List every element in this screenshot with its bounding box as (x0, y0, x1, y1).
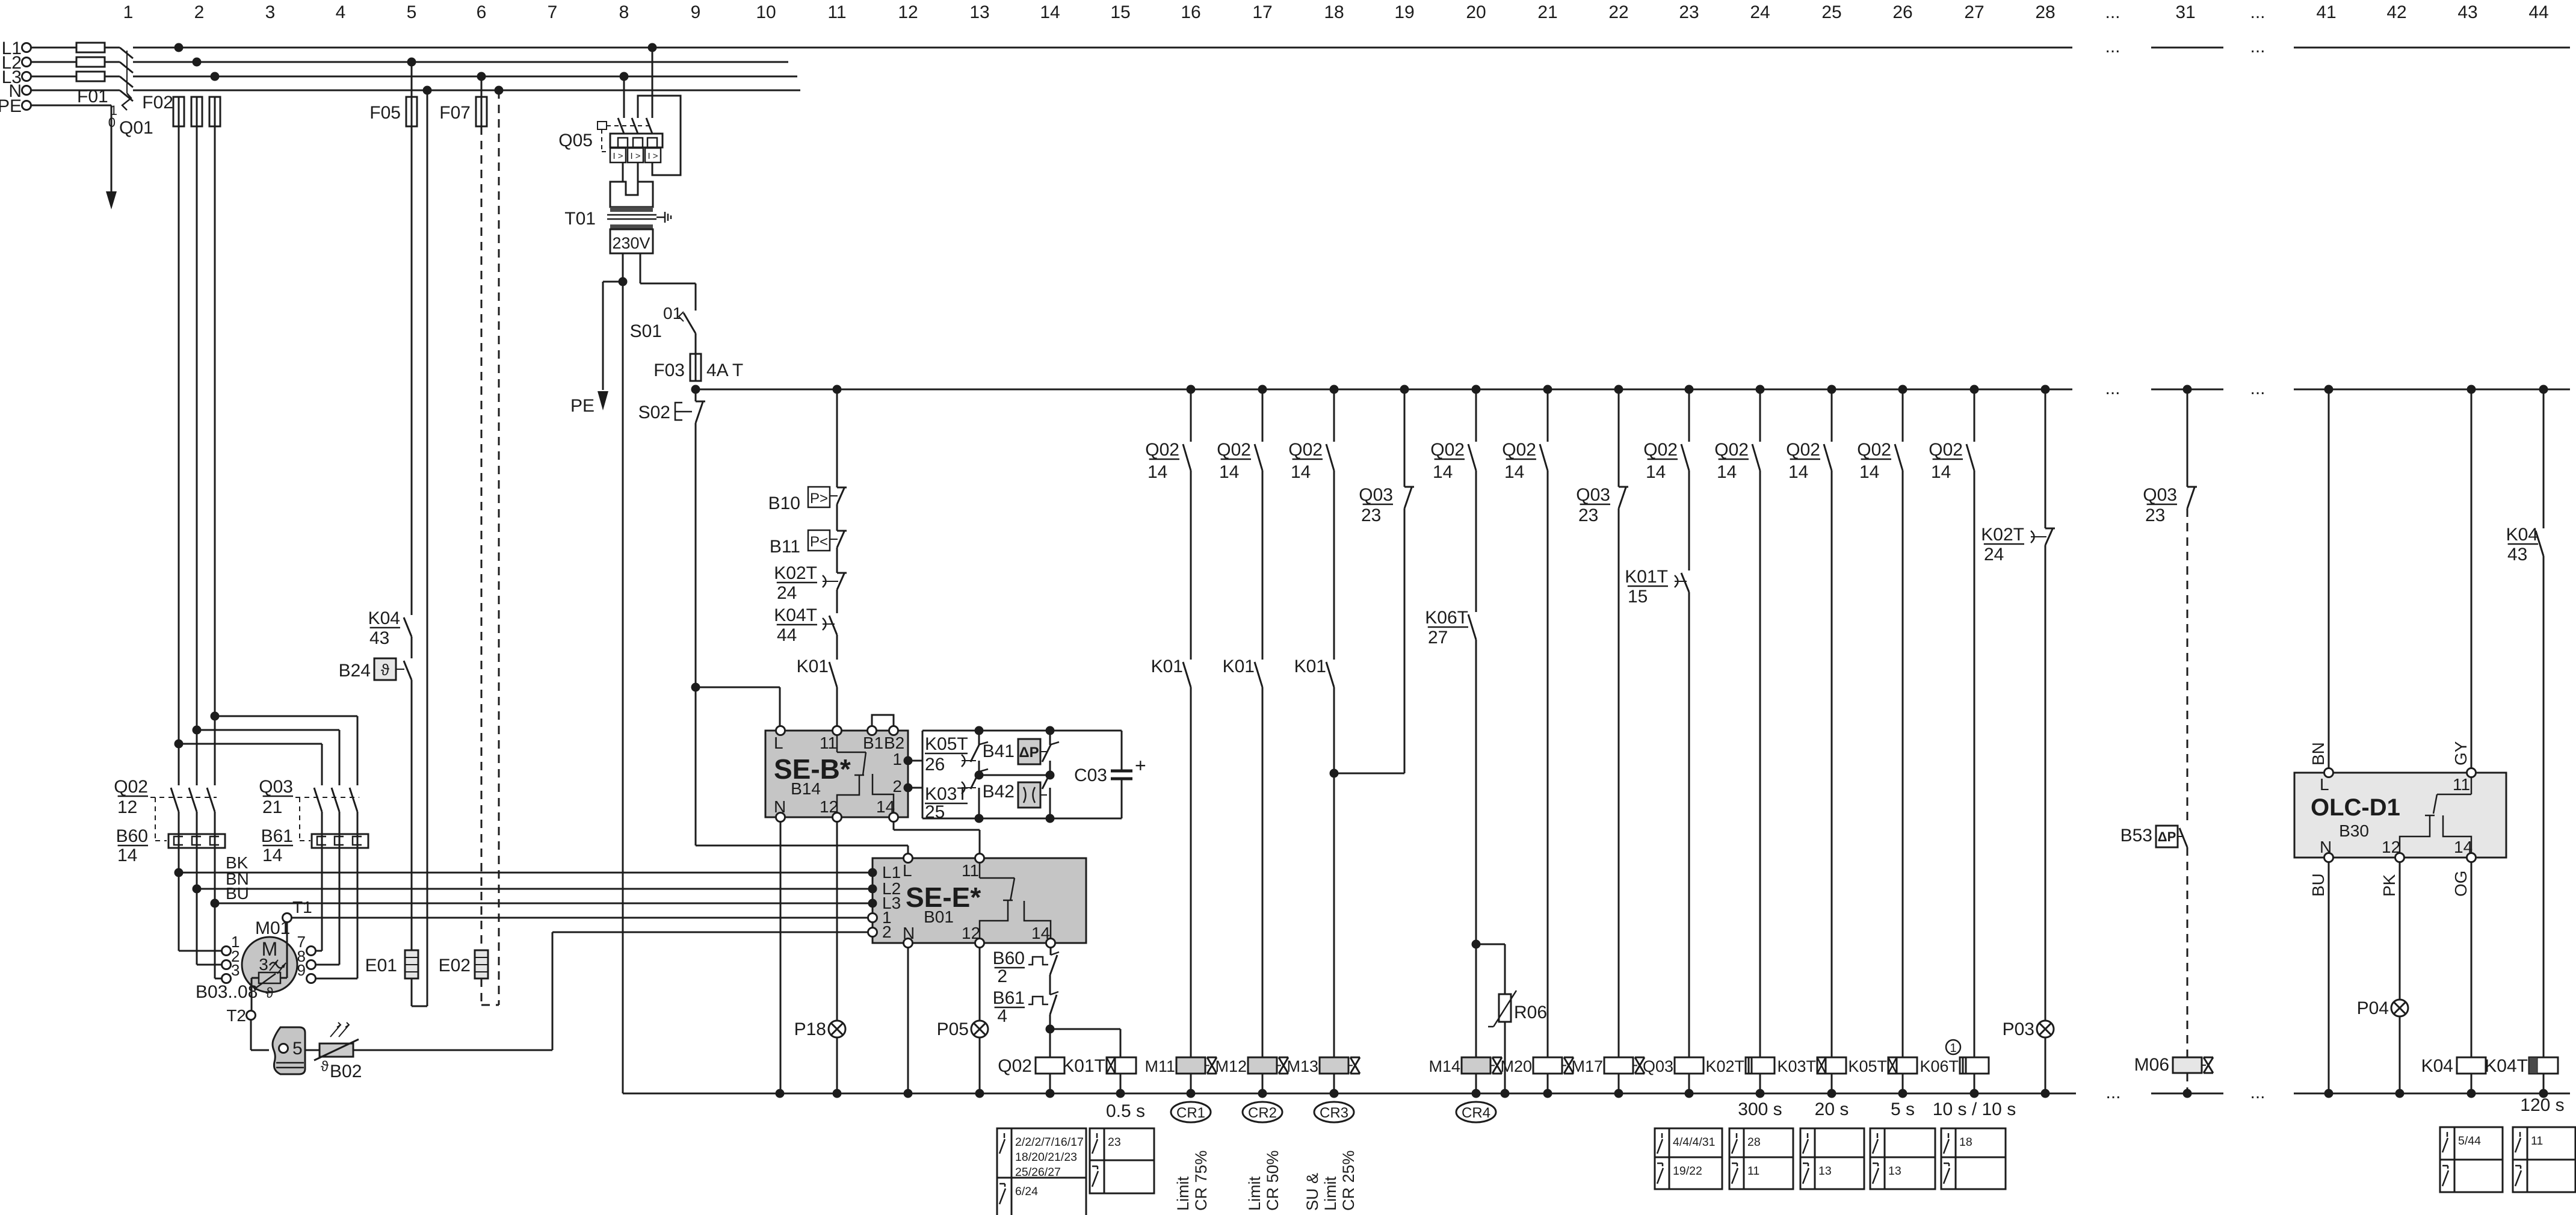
motor protection breaker Q05 (558, 48, 681, 182)
contact K01 (col11) (797, 635, 837, 726)
wire S02 down to SE-E L (696, 423, 908, 855)
svg-text:9: 9 (691, 2, 701, 22)
node SE-B pin1 (904, 756, 913, 765)
svg-text:17: 17 (1252, 2, 1272, 22)
contact Q02 14 (col24) (1714, 389, 1760, 482)
mid link line (979, 774, 1050, 776)
svg-text:Q02: Q02 (1145, 440, 1179, 460)
wire E01 return (427, 90, 428, 1006)
wire motor feeds right (315, 812, 357, 978)
junction dot F05 tap on L2 (407, 58, 416, 67)
svg-text:B10: B10 (768, 493, 800, 513)
svg-text:42: 42 (2386, 2, 2406, 22)
cross-ref table K04 (2440, 1127, 2503, 1192)
svg-text:ϑ: ϑ (265, 985, 273, 1001)
wire SE-B 14 to SE-E 11 (894, 821, 980, 854)
label 300 s (1738, 1099, 1782, 1119)
relay ellipse CR1 (1171, 1102, 1211, 1122)
motor terminal 3 (222, 961, 240, 983)
solenoid valve coil M17 (1571, 1057, 1645, 1093)
svg-text:Q02: Q02 (998, 1056, 1032, 1076)
cross-ref table K06T (1941, 1128, 2006, 1189)
svg-text:F01: F01 (77, 87, 108, 107)
pin SE-B 11 (833, 726, 842, 735)
timer coil K02T (1705, 1057, 1774, 1093)
svg-text:BU: BU (226, 884, 249, 903)
module SE-E* B01 (873, 858, 1086, 943)
svg-text:15: 15 (1110, 2, 1130, 22)
svg-text:Q02: Q02 (1288, 440, 1323, 460)
coil K04 (2421, 862, 2486, 1093)
svg-text:28: 28 (2035, 2, 2055, 22)
svg-text:K06T: K06T (1425, 608, 1468, 628)
pin SE-E L3 (868, 899, 877, 908)
svg-text:K04T: K04T (2485, 1056, 2528, 1076)
terminal N (8, 81, 31, 101)
svg-text:S02: S02 (638, 403, 670, 422)
svg-text:Q05: Q05 (558, 131, 593, 150)
lamp P04 (2357, 862, 2408, 1093)
timer coil K05T (1848, 1057, 1917, 1093)
svg-text:B61: B61 (261, 826, 293, 846)
svg-text:9: 9 (297, 961, 306, 979)
svg-text:K05T: K05T (1848, 1057, 1887, 1075)
junction dot col16 on control rail (1187, 385, 1196, 394)
wire transformer to S01 (640, 283, 696, 311)
svg-text:P05: P05 (937, 1019, 969, 1039)
pressure sensor B53 dP (2120, 826, 2187, 847)
svg-text:S01: S01 (630, 321, 662, 341)
wire col27 to coil (1974, 471, 1975, 1057)
pin SE-E 1 (868, 914, 877, 923)
cross-ref table K04T (2513, 1127, 2575, 1192)
contact Q02 14 (col17) (1217, 389, 1262, 482)
wire OLC N to bottom rail (2328, 862, 2330, 1093)
svg-text:11: 11 (820, 734, 837, 752)
svg-text:24: 24 (777, 583, 797, 603)
solenoid valve coil M12 (1215, 1057, 1288, 1093)
svg-text:L: L (903, 861, 912, 880)
fuse F07 (439, 97, 487, 126)
node SE-B pin2 (904, 784, 913, 793)
cross-ref table K03T (1800, 1128, 1864, 1189)
fuse F03 4A T (653, 354, 743, 381)
svg-text:...: ... (2250, 2, 2265, 22)
wire control rail (696, 389, 2570, 391)
rotated label BU (2309, 873, 2327, 897)
svg-text:2: 2 (892, 777, 902, 796)
wire col26 to coil (1902, 471, 1904, 1057)
coil K04T (2485, 556, 2558, 1093)
pin SE-E 11 (975, 854, 984, 863)
wire Q03 tap BN (193, 726, 340, 786)
svg-text:11: 11 (827, 2, 846, 22)
timer coil K03T (1777, 1057, 1846, 1093)
wire N rail (31, 90, 800, 91)
label 0.5 s (1106, 1101, 1145, 1121)
svg-text:11: 11 (2453, 775, 2470, 794)
svg-text:PK: PK (2380, 874, 2398, 897)
pin SE-B B1 (868, 726, 877, 735)
terminal L1 (2, 39, 31, 58)
solenoid valve coil M20 (1500, 1057, 1574, 1093)
main switch Q01 (108, 48, 153, 138)
svg-text:4: 4 (336, 2, 346, 22)
junction dot col26 on control rail (1898, 385, 1907, 394)
svg-text:K03T: K03T (925, 784, 968, 804)
svg-text:CR 25%: CR 25% (1339, 1150, 1357, 1211)
wire E02 return (dashed) (498, 90, 500, 1005)
junction dot col20 on control rail (1472, 385, 1481, 394)
svg-text:K03T: K03T (1777, 1057, 1816, 1075)
svg-text:F05: F05 (369, 103, 401, 123)
svg-text:41: 41 (2316, 2, 2336, 22)
solenoid valve coil M06 (2134, 1055, 2213, 1093)
svg-text:E02: E02 (439, 956, 471, 975)
svg-text:ϑ: ϑ (321, 1059, 329, 1075)
svg-text:5: 5 (292, 1039, 303, 1059)
svg-text:14: 14 (1717, 462, 1737, 482)
svg-text:B11: B11 (770, 537, 800, 557)
svg-text:18: 18 (1959, 1136, 1972, 1149)
contactor coil Q03 (1643, 1057, 1703, 1093)
coil K01T (1062, 1029, 1136, 1093)
svg-text:21: 21 (1537, 2, 1557, 22)
svg-text:T01: T01 (564, 209, 596, 229)
timed contact K06T 27 (1425, 471, 1476, 648)
svg-text:230V: 230V (612, 234, 650, 252)
pin SE-B N (776, 813, 785, 822)
pin SE-E L (904, 854, 913, 863)
pressure contact B61 4 (993, 975, 1058, 1029)
pin SE-E 2 (868, 928, 877, 937)
svg-text:B14: B14 (791, 779, 821, 798)
contact Q03 23 (col19) (1359, 389, 1414, 525)
wire Q03 tap BK (211, 712, 358, 786)
junction dot col21 on control rail (1543, 385, 1552, 394)
svg-text:0: 0 (108, 115, 116, 130)
motor terminal 7 (297, 933, 316, 956)
svg-text:Q02: Q02 (1786, 440, 1820, 460)
svg-text:3: 3 (259, 955, 268, 974)
svg-text:SU &: SU & (1303, 1173, 1321, 1211)
svg-text:K04T: K04T (774, 605, 817, 625)
pin OLC L (2324, 768, 2334, 778)
svg-text:M11: M11 (1144, 1057, 1175, 1075)
svg-text:18/20/21/23: 18/20/21/23 (1015, 1151, 1077, 1164)
svg-text:27: 27 (1964, 2, 1984, 22)
svg-text:20 s: 20 s (1815, 1099, 1849, 1119)
fuse F05 (369, 97, 417, 126)
svg-text:I >: I > (613, 151, 623, 161)
svg-text:Q02: Q02 (1430, 440, 1465, 460)
svg-text:14: 14 (1646, 462, 1666, 482)
pin SE-E L1 (868, 868, 877, 877)
node control rail start (691, 385, 700, 394)
contactor contacts Q02 12 (114, 777, 217, 841)
svg-text:15: 15 (1628, 587, 1648, 607)
svg-text:B53: B53 (2120, 826, 2152, 846)
svg-text:2: 2 (997, 966, 1007, 986)
wire BK to SE-E L1 (179, 853, 868, 873)
svg-text:Q02: Q02 (1714, 440, 1749, 460)
terminal L3 (2, 67, 31, 87)
wire T2 to gland (251, 1019, 269, 1050)
svg-text:B1: B1 (863, 734, 883, 752)
svg-text:43: 43 (2507, 545, 2527, 564)
svg-text:Q02: Q02 (1643, 440, 1678, 460)
cross-ref table K05T (1870, 1128, 1935, 1189)
svg-text:OG: OG (2451, 870, 2470, 897)
svg-text:6: 6 (477, 2, 487, 22)
node Q02/K01T split (1046, 1018, 1121, 1034)
svg-text:CR 75%: CR 75% (1192, 1150, 1210, 1211)
coil Q02 (998, 1029, 1064, 1093)
junction dot col18 on control rail (1330, 385, 1339, 394)
pin SE-B 12 (833, 813, 842, 822)
svg-text:BU: BU (2309, 873, 2327, 897)
svg-text:2/2/2/7/16/17: 2/2/2/7/16/17 (1015, 1136, 1084, 1149)
svg-text:43: 43 (2457, 2, 2477, 22)
pin SE-E 14 (1046, 939, 1055, 948)
transformer T01 (564, 182, 671, 283)
svg-text:Limit: Limit (1174, 1176, 1192, 1211)
svg-text:14: 14 (1291, 462, 1311, 482)
wire F02 drops to Q02 contactor (179, 126, 215, 785)
junction dots BK BN BU (175, 868, 220, 908)
flow switch B60 14 (motor) (116, 826, 225, 865)
svg-text:2: 2 (194, 2, 205, 22)
wire PE tap from transformer (603, 277, 628, 286)
svg-text:M01: M01 (255, 918, 290, 938)
svg-text:14: 14 (1788, 462, 1808, 482)
contact K04 43 (heater branch) (368, 608, 412, 648)
svg-text:B41: B41 (983, 741, 1015, 761)
marker circled 1 (1946, 1040, 1960, 1055)
switch S02 (638, 389, 705, 423)
motor terminal 2 (222, 947, 240, 969)
svg-text:CR2: CR2 (1248, 1105, 1277, 1121)
wire col41 rail to OLC L (2324, 385, 2334, 773)
svg-text:3: 3 (265, 2, 276, 22)
pin SE-B L (776, 726, 785, 735)
svg-text:5: 5 (407, 2, 417, 22)
junction dots F02 taps (175, 43, 220, 81)
junction dot E01 return on N (423, 86, 432, 95)
svg-text:R06: R06 (1514, 1003, 1547, 1022)
wire col19 to col18 (1334, 509, 1404, 773)
svg-text:24: 24 (1750, 2, 1770, 22)
label 10 s / 10 s (1933, 1099, 2016, 1119)
pressure switch B11 P&lt; (770, 504, 847, 557)
label 120 s (2520, 1095, 2564, 1115)
cross-ref table K01T (1090, 1128, 1154, 1193)
svg-text:P04: P04 (2357, 998, 2389, 1018)
svg-text:23: 23 (1108, 1136, 1121, 1149)
svg-text:120 s: 120 s (2520, 1095, 2564, 1115)
svg-text:B24: B24 (339, 661, 371, 681)
svg-text:P03: P03 (2003, 1019, 2034, 1039)
svg-text:26: 26 (925, 755, 945, 774)
junction dot Q05 tap on L3 (620, 72, 629, 81)
svg-text:5 s: 5 s (1891, 1099, 1915, 1119)
wire 0V left drop (transformer to bottom rail) (622, 282, 624, 1093)
pressure sensor B41 dP (983, 731, 1059, 775)
svg-text:...: ... (2105, 2, 2120, 22)
svg-text:14: 14 (262, 846, 282, 865)
sub-circuit frame (K05T/K03T/B41/B42) (908, 731, 1122, 818)
svg-text:PE: PE (0, 96, 22, 116)
svg-text:CR1: CR1 (1176, 1105, 1205, 1121)
svg-text:P>: P> (810, 490, 828, 507)
svg-text:B02: B02 (330, 1062, 362, 1081)
svg-text:Q03: Q03 (1359, 485, 1393, 505)
svg-text:ΔP: ΔP (1019, 744, 1039, 761)
wire col31 dashed lower (2187, 847, 2188, 1057)
ground arrow PE (control) (570, 282, 608, 416)
solenoid valve coil M11 (1144, 1057, 1217, 1093)
junction dot col19 on control rail (1400, 385, 1409, 394)
svg-text:1: 1 (892, 750, 902, 768)
svg-text:01: 01 (663, 304, 682, 323)
svg-text:Q02: Q02 (1502, 440, 1536, 460)
timed contact K01T 15 (1625, 471, 1689, 607)
wire T1 to thermistor (280, 922, 287, 978)
svg-text:B60: B60 (993, 948, 1025, 968)
cross-ref table Q03 (1655, 1128, 1722, 1189)
svg-text:L: L (774, 734, 783, 752)
rotated label Limit CR 50% (1246, 1150, 1282, 1211)
svg-text:GY: GY (2451, 741, 2470, 765)
svg-text:22: 22 (1608, 2, 1628, 22)
wire thermistor to T2 (252, 978, 259, 1011)
svg-text:18: 18 (1324, 2, 1344, 22)
junction dot F07 tap on L3 (477, 72, 486, 81)
svg-text:B03..08: B03..08 (196, 982, 258, 1002)
timed contact K02T 24 (774, 548, 847, 603)
relay ellipse CR2 (1243, 1102, 1282, 1122)
wire BN to SE-E L2 (197, 870, 868, 889)
contact Q02 14 (col20) (1430, 389, 1476, 482)
cross-ref table Q02 (997, 1128, 1086, 1215)
svg-text:M06: M06 (2134, 1055, 2169, 1075)
contact K01 (col16) (1151, 471, 1191, 687)
solenoid valve coil M13 (1286, 1057, 1360, 1093)
label B03..08 (196, 982, 258, 1002)
svg-text:K04: K04 (2421, 1056, 2453, 1076)
svg-text:K01: K01 (1151, 657, 1183, 676)
svg-text:Q02: Q02 (114, 777, 148, 797)
svg-text:...: ... (2250, 37, 2265, 57)
svg-text:Q03: Q03 (259, 777, 293, 797)
terminal T1 (283, 898, 869, 923)
svg-text:...: ... (2105, 37, 2120, 57)
junction dots sub-circuit (975, 726, 1055, 823)
contact Q02 14 (col16) (1145, 389, 1191, 482)
capacitor C03 (1074, 731, 1146, 818)
junction dot col22 on control rail (1614, 385, 1623, 394)
svg-text:14: 14 (1433, 462, 1453, 482)
svg-text:P18: P18 (794, 1019, 826, 1039)
svg-text:...: ... (2250, 1083, 2265, 1102)
svg-text:12: 12 (117, 797, 137, 817)
svg-text:K05T: K05T (925, 734, 968, 754)
svg-text:16: 16 (1181, 2, 1200, 22)
svg-text:31: 31 (2175, 2, 2195, 22)
svg-text:K04: K04 (368, 608, 400, 628)
rotated label SU & Limit CR 25% (1303, 1150, 1357, 1211)
svg-text:...: ... (2250, 379, 2265, 398)
module SE-B* B14 (765, 731, 908, 817)
svg-text:C03: C03 (1074, 765, 1107, 785)
junction dot col25 on control rail (1827, 385, 1836, 394)
cross-ref table K02T (1729, 1128, 1793, 1189)
svg-text:...: ... (2105, 379, 2120, 398)
flow sensor B42 (983, 771, 1051, 818)
svg-text:14: 14 (117, 846, 137, 865)
svg-text:F02: F02 (142, 93, 173, 113)
lamp P05 (937, 947, 988, 1093)
wire col16 to coil (1190, 687, 1192, 1057)
junction dot col27 on control rail (1970, 385, 1979, 394)
svg-text:14: 14 (1147, 462, 1167, 482)
pin SE-B 14 (889, 813, 898, 822)
svg-text:10 s / 10 s: 10 s / 10 s (1933, 1099, 2016, 1119)
varistor R06 (1476, 944, 1547, 1093)
svg-text:I >: I > (630, 151, 640, 161)
relay ellipse CR4 (1456, 1102, 1496, 1122)
pin OLC 12 (2395, 853, 2405, 862)
svg-text:23: 23 (1578, 505, 1598, 525)
wire SE-E N to bottom rail (907, 947, 909, 1093)
timed contact K05T 26 (925, 731, 988, 775)
svg-text:13: 13 (1818, 1164, 1832, 1178)
pin OLC 11 (2467, 768, 2476, 778)
svg-text:M14: M14 (1429, 1057, 1460, 1075)
svg-text:23: 23 (1361, 505, 1381, 525)
junction dot Q05 tap on L1 (648, 43, 657, 52)
contact K01 (col17) (1223, 471, 1262, 687)
svg-text:B61: B61 (993, 988, 1025, 1008)
svg-text:44: 44 (777, 625, 797, 645)
svg-text:14: 14 (1504, 462, 1524, 482)
label 5 s (1891, 1099, 1915, 1119)
contact Q02 14 (col18) (1288, 389, 1334, 482)
svg-text:T1: T1 (292, 898, 312, 917)
svg-text:Q02: Q02 (1217, 440, 1251, 460)
svg-text:Q02: Q02 (1857, 440, 1891, 460)
thermostat B24 (339, 637, 412, 950)
svg-text:14: 14 (1219, 462, 1239, 482)
motor terminal 9 (297, 961, 316, 983)
svg-text:14: 14 (1040, 2, 1060, 22)
wire B02 to SE-E 2 (353, 932, 868, 1050)
contact Q03 23 (col22) (1576, 389, 1628, 525)
svg-text:21: 21 (262, 797, 282, 817)
svg-text:5/44: 5/44 (2458, 1134, 2481, 1148)
svg-text:K01T: K01T (1062, 1056, 1105, 1076)
svg-text:B42: B42 (983, 782, 1015, 802)
svg-text:11: 11 (2531, 1134, 2543, 1148)
svg-text:Q03: Q03 (1576, 485, 1610, 505)
motor terminal 1 (222, 933, 240, 956)
pin SE-B B2 (889, 726, 898, 735)
svg-text:8: 8 (619, 2, 629, 22)
svg-text:M17: M17 (1571, 1057, 1603, 1075)
svg-text:E01: E01 (365, 956, 397, 975)
switch S01 (630, 304, 696, 354)
svg-text:23: 23 (1679, 2, 1699, 22)
